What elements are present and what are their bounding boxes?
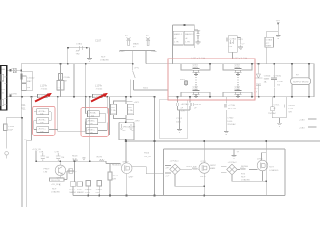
svg-text:C?A/2: C?A/2	[227, 117, 234, 120]
svg-text:R023: R023	[187, 166, 193, 168]
svg-text:GP: GP	[132, 130, 136, 132]
svg-text:Q?01: Q?01	[201, 161, 207, 163]
svg-text:+LED0: +LED0	[85, 189, 93, 191]
svg-text:+GP1: +GP1	[134, 102, 140, 104]
svg-text:+R18A+: +R18A+	[88, 112, 97, 115]
svg-text:+R0?A4: +R0?A4	[181, 103, 190, 106]
svg-text:L10?▸: L10?▸	[95, 84, 103, 88]
svg-text:DB4▸: DB4▸	[152, 50, 157, 53]
svg-text:uF: uF	[194, 107, 197, 109]
svg-text:1000: 1000	[227, 121, 233, 123]
svg-text:/2R: /2R	[113, 179, 117, 181]
svg-text:/50: /50	[277, 85, 281, 87]
svg-text:GP: GP	[123, 130, 127, 132]
svg-text:(P?): (P?)	[135, 68, 139, 70]
svg-text:C?: C?	[74, 172, 78, 174]
svg-text:C?0.1: C?0.1	[274, 105, 281, 107]
svg-text:MA?: MA?	[27, 80, 32, 83]
svg-text:Q?02: Q?02	[257, 159, 263, 161]
svg-text:C350/▸: C350/▸	[264, 75, 271, 78]
svg-text:S001: S001	[143, 88, 149, 90]
svg-text:LOADED: LOADED	[241, 179, 250, 182]
svg-text:.7 500k: .7 500k	[95, 89, 103, 91]
svg-text:1F/R: 1F/R	[128, 113, 133, 115]
svg-text:CN_IN: CN_IN	[144, 156, 151, 158]
svg-text:MAIN2.2: MAIN2.2	[185, 33, 194, 36]
svg-text:+D?CA-2: +D?CA-2	[228, 161, 238, 164]
svg-text:MAIN: MAIN	[235, 88, 241, 91]
svg-text:D?0?: D?0?	[77, 189, 83, 191]
svg-text:C?: C?	[242, 43, 246, 45]
svg-text:C?A.B: C?A.B	[266, 39, 273, 42]
svg-text:10k: 10k	[89, 123, 93, 125]
svg-text:1.7R: 1.7R	[174, 42, 179, 44]
svg-text:GRN?: GRN?	[123, 162, 130, 164]
svg-text:F2: F2	[146, 35, 149, 37]
svg-text:10k: 10k	[40, 131, 44, 133]
svg-text:.1/2R: .1/2R	[85, 192, 91, 194]
svg-text:1.7k: 1.7k	[181, 111, 186, 113]
svg-text:NOT: NOT	[269, 167, 274, 169]
svg-text:1F0: 1F0	[128, 107, 133, 109]
svg-text:+D?CA-1: +D?CA-1	[170, 160, 180, 163]
svg-text:R0?8: R0?8	[97, 156, 103, 158]
svg-text:.1uF: .1uF	[229, 42, 234, 44]
svg-text:+CB3: +CB3	[299, 119, 305, 121]
svg-text:C?A/2: C?A/2	[176, 117, 183, 120]
svg-text:+CB4: +CB4	[299, 127, 305, 129]
svg-text:K001: K001	[180, 79, 186, 81]
svg-text:R?4: R?4	[241, 173, 246, 175]
svg-text:+R026: +R026	[288, 105, 295, 107]
svg-text:?.1A: ?.1A	[111, 109, 116, 112]
svg-text:C10?/B: C10?/B	[9, 93, 17, 95]
svg-text:NOT: NOT	[101, 57, 106, 59]
svg-text:2?: 2?	[24, 139, 27, 141]
svg-text:C.1uF: C.1uF	[277, 81, 284, 83]
svg-text:1F0: 1F0	[111, 107, 116, 109]
svg-text:?.2A: ?.2A	[128, 109, 133, 112]
svg-text:YELLOW: YELLOW	[51, 180, 61, 182]
svg-text:+R0?B: +R0?B	[194, 104, 201, 106]
svg-text:JMP: JMP	[76, 51, 81, 53]
svg-text:+C?: +C?	[165, 176, 170, 178]
svg-text:10k: 10k	[40, 113, 44, 115]
svg-text:MAIN: MAIN	[210, 167, 216, 170]
svg-text:1M: 1M	[46, 157, 49, 159]
svg-text:1.7R: 1.7R	[185, 42, 190, 44]
svg-text:C107: C107	[95, 39, 102, 43]
svg-text:R024A: R024A	[241, 165, 248, 168]
svg-text:C?A: C?A	[39, 150, 44, 153]
svg-text:/4.7k: /4.7k	[72, 159, 78, 161]
svg-text:1M: 1M	[61, 157, 64, 159]
svg-text:R?: R?	[57, 90, 61, 92]
svg-text:◂DB3: ◂DB3	[119, 50, 125, 53]
svg-text:10k: 10k	[40, 122, 44, 124]
svg-text:C?303▸: C?303▸	[274, 74, 282, 77]
svg-text:/F: /F	[274, 108, 277, 110]
svg-text:1F?: 1F?	[132, 127, 137, 129]
svg-text:LIM: LIM	[44, 172, 48, 174]
svg-text:+R?: +R?	[165, 167, 170, 169]
svg-text:MAIN: MAIN	[193, 66, 199, 69]
svg-text:LOADED: LOADED	[100, 59, 109, 62]
svg-text:2A: 2A	[264, 81, 267, 84]
svg-text:uF: uF	[185, 38, 188, 40]
svg-text:+C?2A: +C?2A	[228, 104, 235, 107]
svg-text:R01A 40k: R01A 40k	[112, 164, 122, 167]
svg-text:PROT: PROT	[44, 168, 51, 170]
svg-text:C10/A: C10/A	[64, 76, 71, 79]
svg-text:GRN?: GRN?	[210, 165, 217, 167]
svg-text:1F901A: 1F901A	[123, 126, 131, 129]
svg-text:10k: 10k	[91, 115, 95, 117]
svg-text:D11: D11	[21, 103, 26, 107]
svg-text:uF 1.7R: uF 1.7R	[228, 108, 236, 110]
svg-text:10k: 10k	[89, 132, 93, 134]
svg-text:10uF: 10uF	[8, 130, 14, 132]
svg-text:+LED1: +LED1	[96, 189, 104, 191]
svg-text:.7 500k: .7 500k	[40, 89, 48, 91]
svg-text:MAIN2: MAIN2	[77, 191, 84, 194]
svg-text:/7R: /7R	[229, 46, 233, 48]
svg-text:R11: R11	[21, 107, 26, 111]
svg-text:+R17A+: +R17A+	[38, 110, 47, 113]
svg-text:NOT: NOT	[52, 189, 57, 191]
svg-text:TR2: TR2	[76, 54, 81, 56]
svg-text:1M: 1M	[27, 87, 30, 89]
svg-text:C?A/2: C?A/2	[76, 43, 83, 46]
svg-text:+5V_IN ◧: +5V_IN ◧	[51, 183, 61, 186]
svg-text:QM?: QM?	[129, 177, 135, 179]
svg-text:MAIN: MAIN	[266, 45, 272, 48]
svg-text:C10/B: C10/B	[8, 126, 15, 128]
svg-text:MA: MA	[2, 68, 6, 71]
svg-text:-GP2: -GP2	[135, 120, 141, 122]
svg-text:1000: 1000	[176, 121, 182, 123]
svg-text:P006: P006	[144, 153, 150, 155]
svg-text:1F/R: 1F/R	[111, 113, 116, 115]
svg-text:/C?: /C?	[266, 43, 270, 45]
svg-text:C?: C?	[57, 87, 61, 89]
svg-text:C?B: C?B	[55, 151, 60, 153]
svg-text:/2R: /2R	[288, 111, 292, 113]
svg-text:R0?5: R0?5	[200, 176, 206, 178]
svg-text:MAIN: MAIN	[193, 88, 199, 91]
svg-text:/2R: /2R	[96, 192, 100, 194]
svg-text:MAIN: MAIN	[235, 66, 241, 69]
svg-text:TP?: TP?	[276, 21, 281, 23]
svg-text:HK1: HK1	[239, 39, 244, 41]
svg-text:MAIN1.1: MAIN1.1	[174, 33, 183, 36]
svg-text:T?: T?	[237, 152, 240, 154]
svg-text:D?0?: D?0?	[70, 189, 76, 191]
svg-text:CN: CN	[2, 89, 6, 91]
svg-text:1M: 1M	[64, 81, 67, 83]
svg-text:R?: R?	[296, 75, 300, 77]
svg-text:uF: uF	[174, 38, 177, 40]
svg-text:MAIN: MAIN	[133, 43, 139, 46]
svg-text:+C?+: +C?+	[113, 175, 119, 177]
svg-text:/250VAC: /250VAC	[227, 123, 236, 126]
svg-text:LOADED: LOADED	[269, 169, 278, 172]
svg-text:R028: R028	[72, 155, 78, 157]
svg-text:C10/A2: C10/A2	[27, 77, 35, 80]
svg-text:F?: F?	[133, 47, 136, 49]
svg-text:SUPPLY IRLED: SUPPLY IRLED	[293, 82, 309, 84]
svg-text:uF: uF	[181, 107, 184, 109]
svg-text:+C?A/2: +C?A/2	[229, 38, 237, 41]
svg-text:LOADED: LOADED	[51, 191, 60, 194]
svg-text:1.7Ω: 1.7Ω	[288, 108, 293, 110]
svg-text:L10?▸: L10?▸	[40, 84, 48, 88]
svg-text:C069: C069	[195, 31, 201, 33]
svg-text:MAIN: MAIN	[264, 78, 270, 81]
svg-text:F1: F1	[125, 35, 128, 37]
svg-text:MAIN1: MAIN1	[70, 191, 77, 194]
svg-text:NOT: NOT	[241, 177, 246, 179]
svg-text:750VAC: 750VAC	[268, 112, 276, 115]
